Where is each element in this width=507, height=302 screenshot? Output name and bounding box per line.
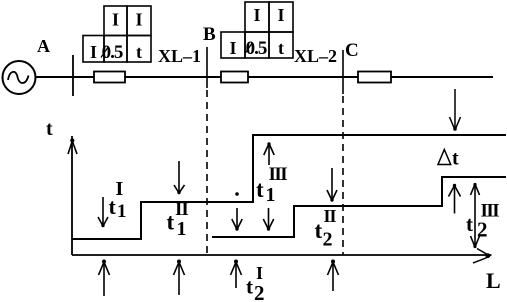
svg-text:XL–1: XL–1 (158, 46, 201, 66)
svg-text:L: L (486, 268, 501, 293)
resistor (line impedance) after C (358, 72, 391, 83)
up arrow below axis 2 (174, 260, 185, 296)
label t2-I below axis (246, 263, 265, 302)
up arrow below axis 3 (231, 260, 242, 289)
arrow down at t1-II (174, 161, 185, 194)
svg-text:2: 2 (254, 281, 265, 302)
up arrow below axis 1 (99, 260, 110, 297)
bus A tick (72, 55, 74, 96)
arrow up below t2-III step (left) (449, 184, 461, 214)
svg-text:1: 1 (117, 201, 127, 222)
resistor (line impedance) on XL-2 (221, 72, 248, 83)
svg-text:2: 2 (477, 218, 488, 242)
arrow up at t1-III (264, 142, 274, 165)
double arrow for t2-III height (471, 183, 480, 248)
svg-text:I: I (277, 5, 284, 25)
svg-text:I: I (116, 178, 124, 200)
svg-text:I: I (135, 10, 142, 30)
label delta-t (438, 148, 459, 170)
svg-text:II: II (324, 206, 337, 226)
t axis (vertical) (68, 136, 77, 255)
arrow down at t2-II (327, 168, 337, 202)
relay block 1 at A (cells I / 0.5 / t, and I I above) (83, 6, 151, 62)
svg-text:t: t (46, 118, 53, 140)
svg-text:t: t (167, 210, 175, 235)
arrow down at t1-I (98, 197, 108, 227)
svg-text:t: t (109, 194, 117, 219)
curve t1 (step characteristic from A) (72, 135, 506, 239)
svg-text:t: t (246, 275, 253, 299)
svg-text:I: I (253, 5, 260, 25)
curve t2 (step characteristic from B) (212, 177, 506, 237)
label t1-III (256, 164, 287, 206)
wire: main line from A to right end (36, 76, 494, 78)
svg-text:t: t (466, 212, 473, 236)
up arrow below axis 4 (328, 260, 339, 292)
resistor (line impedance) on XL-1 (94, 72, 125, 83)
svg-text:1: 1 (266, 184, 276, 206)
arrow down pair over t2-I (right) (263, 208, 273, 231)
arrow down pair over t2-I (left) (232, 208, 242, 231)
label t1-I (109, 178, 127, 222)
arrow: fault indicator down arrow right of C (450, 89, 461, 131)
svg-text:III: III (269, 164, 288, 185)
label t2-III (466, 201, 499, 242)
generator G (AC source) (3, 61, 36, 94)
label t1-II (167, 199, 189, 240)
svg-text:I: I (256, 263, 263, 283)
svg-text:I: I (90, 42, 97, 62)
svg-text:A: A (37, 36, 50, 56)
node C bus line (solid + dashed) (342, 50, 344, 255)
svg-text:t: t (136, 42, 142, 62)
svg-text:2: 2 (323, 229, 333, 251)
svg-text:1: 1 (177, 218, 187, 240)
svg-text:II: II (175, 199, 188, 220)
svg-text:t: t (278, 38, 284, 58)
svg-text:t: t (256, 177, 264, 202)
node B bus line (solid + dashed) (206, 47, 208, 255)
small dot (235, 192, 239, 196)
svg-text:I: I (229, 38, 236, 58)
relay block 2 at B (cells I / 0.5 / t, and I I above) (221, 2, 293, 58)
L axis arrowhead (473, 249, 490, 264)
label t2-II (315, 206, 337, 251)
svg-text:XL–2: XL–2 (294, 46, 337, 66)
svg-text:t: t (315, 218, 323, 243)
svg-text:I: I (112, 10, 119, 30)
L axis (horizontal) (72, 254, 492, 256)
svg-text:t: t (452, 148, 459, 170)
svg-text:C: C (345, 40, 359, 61)
svg-text:B: B (203, 24, 216, 45)
